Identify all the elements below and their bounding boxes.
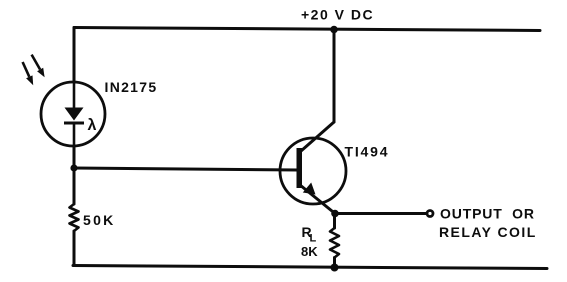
svg-text:IN2175: IN2175 [105, 79, 158, 95]
wire left vertical top (rail to photodiode) [73, 28, 76, 83]
light arrow 1 [23, 62, 34, 85]
output terminal open circle [427, 211, 433, 217]
photodiode anode triangle [65, 108, 84, 121]
junction node base/50K [70, 164, 77, 171]
light arrow 2 [32, 55, 45, 78]
wire RL top lead [333, 214, 336, 229]
wire collector vertical from top rail [333, 30, 336, 123]
wire top rail +20V [74, 28, 540, 31]
wire emitter node to output terminal [335, 212, 426, 215]
wire RL bottom lead [333, 258, 336, 268]
junction node on top rail [330, 26, 338, 34]
junction node bottom rail [331, 264, 339, 272]
photodiode D1 envelope circle [41, 82, 105, 146]
wire base node to transistor base [74, 168, 298, 170]
transistor emitter diagonal [300, 185, 335, 214]
svg-text:TI494: TI494 [345, 144, 390, 160]
photodiode cathode bar [64, 122, 84, 125]
wire photodiode bottom to 50K [73, 146, 76, 204]
transistor base bar [297, 148, 303, 188]
svg-text:50K: 50K [83, 212, 116, 228]
svg-text:L: L [310, 233, 317, 245]
transistor emitter arrowhead [303, 183, 316, 195]
svg-text:RELAY COIL: RELAY COIL [439, 224, 537, 240]
photodiode cathode lead [73, 124, 76, 146]
resistor 50K zigzag [70, 204, 79, 231]
photodiode anode lead [73, 82, 76, 108]
wire below 50K to bottom rail [73, 231, 76, 266]
resistor RL 8K zigzag [330, 228, 339, 258]
svg-text:λ: λ [88, 117, 97, 134]
svg-text:OUTPUT OR: OUTPUT OR [440, 206, 535, 222]
wire bottom rail [73, 266, 547, 269]
transistor collector diagonal [301, 122, 334, 151]
svg-text:+20 V DC: +20 V DC [301, 7, 374, 23]
transistor Q1 envelope circle [280, 138, 346, 204]
junction node emitter/RL/output [331, 210, 339, 218]
svg-text:8K: 8K [301, 244, 318, 259]
